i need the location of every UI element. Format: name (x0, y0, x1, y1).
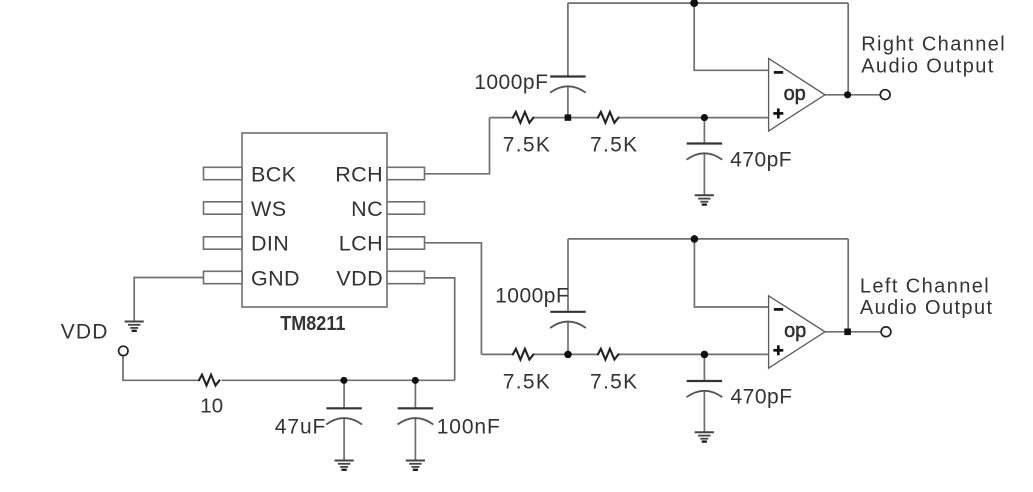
svg-text:RCH: RCH (335, 162, 383, 186)
svg-text:Left Channel: Left Channel (860, 275, 990, 297)
svg-text:VDD: VDD (336, 266, 383, 290)
svg-text:BCK: BCK (251, 162, 297, 186)
svg-text:7.5K: 7.5K (503, 134, 551, 157)
svg-text:470pF: 470pF (730, 149, 792, 172)
svg-text:100nF: 100nF (437, 415, 501, 438)
svg-text:47uF: 47uF (275, 415, 326, 438)
svg-text:1000pF: 1000pF (474, 71, 548, 94)
svg-text:Audio Output: Audio Output (861, 55, 995, 77)
svg-text:TM8211: TM8211 (280, 313, 345, 335)
svg-text:Audio Output: Audio Output (860, 297, 994, 319)
svg-text:VDD: VDD (61, 321, 109, 344)
svg-text:7.5K: 7.5K (590, 370, 638, 393)
svg-text:GND: GND (251, 266, 300, 290)
svg-text:1000pF: 1000pF (495, 285, 569, 308)
svg-text:7.5K: 7.5K (590, 134, 638, 157)
svg-text:NC: NC (351, 197, 383, 221)
svg-text:DIN: DIN (251, 232, 289, 256)
svg-text:Right Channel: Right Channel (861, 34, 1006, 56)
svg-text:op: op (784, 83, 806, 105)
svg-text:470pF: 470pF (731, 386, 793, 409)
svg-text:LCH: LCH (339, 232, 383, 256)
svg-text:10: 10 (200, 394, 223, 417)
svg-text:7.5K: 7.5K (503, 370, 551, 393)
svg-text:op: op (784, 320, 806, 342)
svg-text:WS: WS (251, 197, 286, 221)
